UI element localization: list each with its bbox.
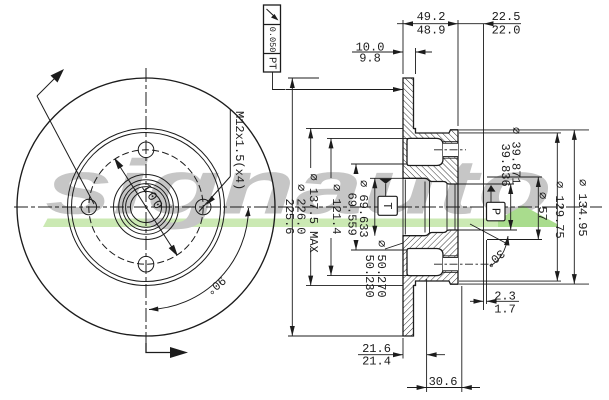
21.6/21.4 dimension: [358, 279, 445, 392]
svg-text:48.9: 48.9: [417, 24, 446, 38]
ext line hub rear top: [457, 20, 459, 126]
dia 226 dimension: [286, 78, 404, 336]
friction wear ring circle: [68, 129, 225, 286]
svg-text:1.7: 1.7: [494, 303, 516, 317]
svg-text:⌀ 121.4: ⌀ 121.4: [329, 184, 343, 234]
svg-text:50.230: 50.230: [362, 255, 376, 298]
dia 50.270 dimension: [370, 178, 403, 249]
hat outer circle: [72, 133, 221, 282]
svg-text:39.836: 39.836: [498, 144, 512, 187]
30 deg chamfer dim: [470, 224, 508, 266]
hub ring 4: [126, 187, 167, 228]
svg-text:M12x1.5(x4): M12x1.5(x4): [232, 111, 246, 190]
hub ring 3: [123, 184, 170, 231]
svg-text:22.0: 22.0: [492, 24, 521, 38]
phantom lines stub axle: [483, 24, 485, 310]
outer disc circle: [17, 78, 275, 336]
svg-text:49.2: 49.2: [417, 10, 446, 24]
bolt hole S: [138, 256, 154, 272]
dia 57 dimension: [487, 177, 542, 240]
section cut arrow top-left: [37, 69, 94, 204]
dia 134.95 dimension: [459, 130, 589, 284]
svg-text:22.5: 22.5: [492, 10, 521, 24]
30.6 dimension: [407, 286, 480, 392]
section body upper half: [403, 78, 458, 184]
bolt hole E: [195, 199, 211, 215]
dia 129.75 dimension: [459, 133, 561, 281]
svg-text:⌀ 129.75: ⌀ 129.75: [552, 181, 566, 239]
hub ring 2: [119, 180, 174, 235]
90 deg arc: [149, 208, 249, 310]
svg-text:9.8: 9.8: [359, 52, 381, 66]
bore interior edges: [403, 178, 458, 235]
bolt hole W: [81, 199, 97, 215]
svg-text:21.4: 21.4: [362, 355, 391, 369]
runout tolerance frame 0.050 PT: [264, 5, 286, 90]
watermark green swoosh wedge: [498, 206, 558, 228]
watermark text signauto: [45, 145, 552, 231]
section view direction arrow bottom: [146, 343, 188, 358]
dim line 49.2/22.5: [397, 23, 521, 25]
svg-text:⌀ 134.95: ⌀ 134.95: [575, 179, 589, 237]
top dims: [352, 20, 521, 126]
svg-text:225.6: 225.6: [282, 199, 296, 235]
bolt hole upper (white): [443, 143, 458, 156]
datum T box: [378, 179, 397, 216]
svg-text:⌀ 57: ⌀ 57: [535, 192, 549, 221]
svg-text:⌀ 137.5 MAX: ⌀ 137.5 MAX: [306, 174, 320, 253]
svg-text:30.6: 30.6: [429, 375, 458, 389]
datum P box: [487, 185, 506, 221]
bolt circle dia 100 dimension line: [115, 159, 177, 255]
bolt hole N: [138, 142, 154, 158]
svg-text:PT: PT: [265, 57, 277, 70]
dia 121.4 dimension: [327, 138, 416, 275]
dia 137.5 dimension: [306, 128, 403, 285]
bolt hole centerline lower: [434, 263, 492, 265]
svg-text:P: P: [488, 208, 502, 215]
arc arrow bottom: [149, 307, 159, 312]
dia 69.633 dimension: [351, 164, 407, 250]
hub bore circle: [130, 191, 161, 222]
centerline vertical: [145, 68, 147, 353]
svg-text:0.050: 0.050: [267, 27, 277, 53]
ext line bar right top: [415, 48, 417, 74]
leader M12: [199, 109, 230, 212]
centerline horizontal: [14, 206, 602, 208]
hub ring 1: [114, 175, 179, 240]
2.3/1.7 dimension: [470, 300, 497, 302]
bolt hole centerline upper: [434, 149, 466, 151]
svg-text:T: T: [380, 202, 394, 209]
svg-text:69.559: 69.559: [345, 193, 359, 236]
watermark green band: [43, 219, 508, 228]
bolt circle (dashed): [89, 150, 203, 264]
arc arrow right: [245, 208, 251, 217]
dia 39.871 dimension: [458, 184, 517, 230]
ext line bar left top: [402, 20, 404, 74]
section body lower half (mirror): [403, 230, 458, 336]
dim line 10.0: [352, 51, 403, 53]
